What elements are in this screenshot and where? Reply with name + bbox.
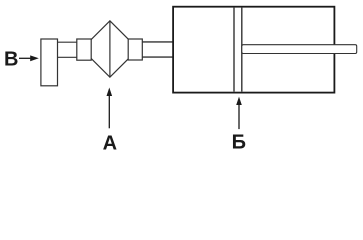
throttle diamond А <box>82 21 138 77</box>
source block (target of В) <box>41 39 58 86</box>
svg-text:А: А <box>103 133 117 154</box>
port square left <box>77 39 91 60</box>
pipe connector left (two lines) <box>58 42 77 57</box>
diamond center line <box>109 21 111 77</box>
arrow to piston Б <box>236 97 242 130</box>
cylinder body Б <box>173 7 334 93</box>
piston rod <box>242 45 357 54</box>
piston (double line) Б <box>234 8 242 92</box>
svg-text:Б: Б <box>232 131 246 153</box>
pipe connector right (two lines) <box>142 42 173 57</box>
arrow to source block В <box>19 55 39 61</box>
arrow to diamond А <box>107 88 113 129</box>
svg-text:В: В <box>4 49 18 71</box>
port square right <box>128 39 142 60</box>
